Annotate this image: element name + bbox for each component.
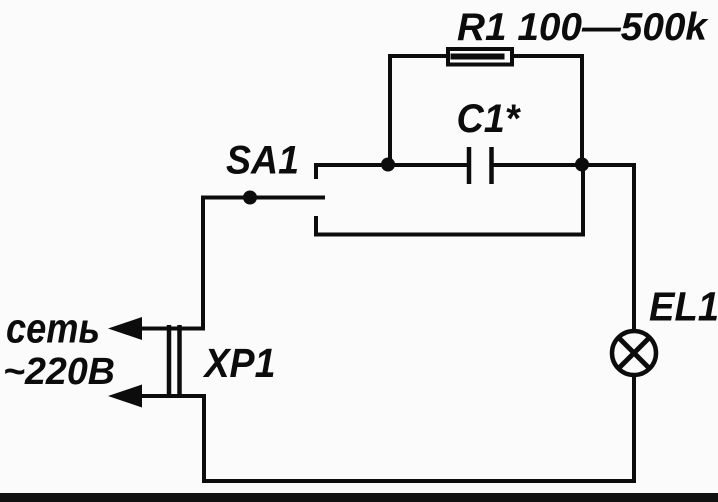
node junction left (dot) bbox=[381, 158, 395, 172]
svg-text:EL1: EL1 bbox=[649, 284, 718, 330]
plug XP1 (connector bars) bbox=[169, 325, 180, 398]
capacitor C1 bbox=[469, 147, 492, 184]
node junction right (dot) bbox=[575, 158, 589, 172]
wire: bottom of RC block (switch lower contact right then up to right node) bbox=[314, 166, 583, 235]
wire: middle horizontal right (capacitor right plate to lamp branch corner) bbox=[494, 165, 635, 331]
wire: lower pin of XP1 bbox=[140, 394, 204, 398]
svg-text:сеть: сеть bbox=[6, 305, 100, 352]
wire: middle horizontal left (switch top contact to capacitor left plate) bbox=[316, 163, 467, 167]
wire: left lead of R1 (from left node up and right to resistor) bbox=[390, 56, 448, 166]
svg-text:C1*: C1* bbox=[457, 97, 522, 141]
arrow: lower pin of XP1 bbox=[108, 385, 142, 408]
wire: lamp bottom, bottom return wire, up to plug lower pin bbox=[204, 375, 634, 481]
lamp EL1 bbox=[612, 331, 656, 375]
svg-text:R1 100—500k: R1 100—500k bbox=[457, 6, 709, 49]
svg-text:XP1: XP1 bbox=[203, 340, 276, 386]
svg-text:~220В: ~220В bbox=[3, 351, 115, 393]
arrow: upper pin of XP1 bbox=[108, 317, 142, 340]
switch SA1 bbox=[203, 163, 325, 236]
bottom black bar bbox=[0, 493, 718, 502]
wire: right lead of R1 (right and down to right node) bbox=[512, 56, 582, 166]
resistor R1 bbox=[448, 49, 512, 65]
svg-text:SA1: SA1 bbox=[226, 139, 299, 183]
wire: left vertical from switch lever down to plug upper pin bbox=[140, 196, 203, 329]
